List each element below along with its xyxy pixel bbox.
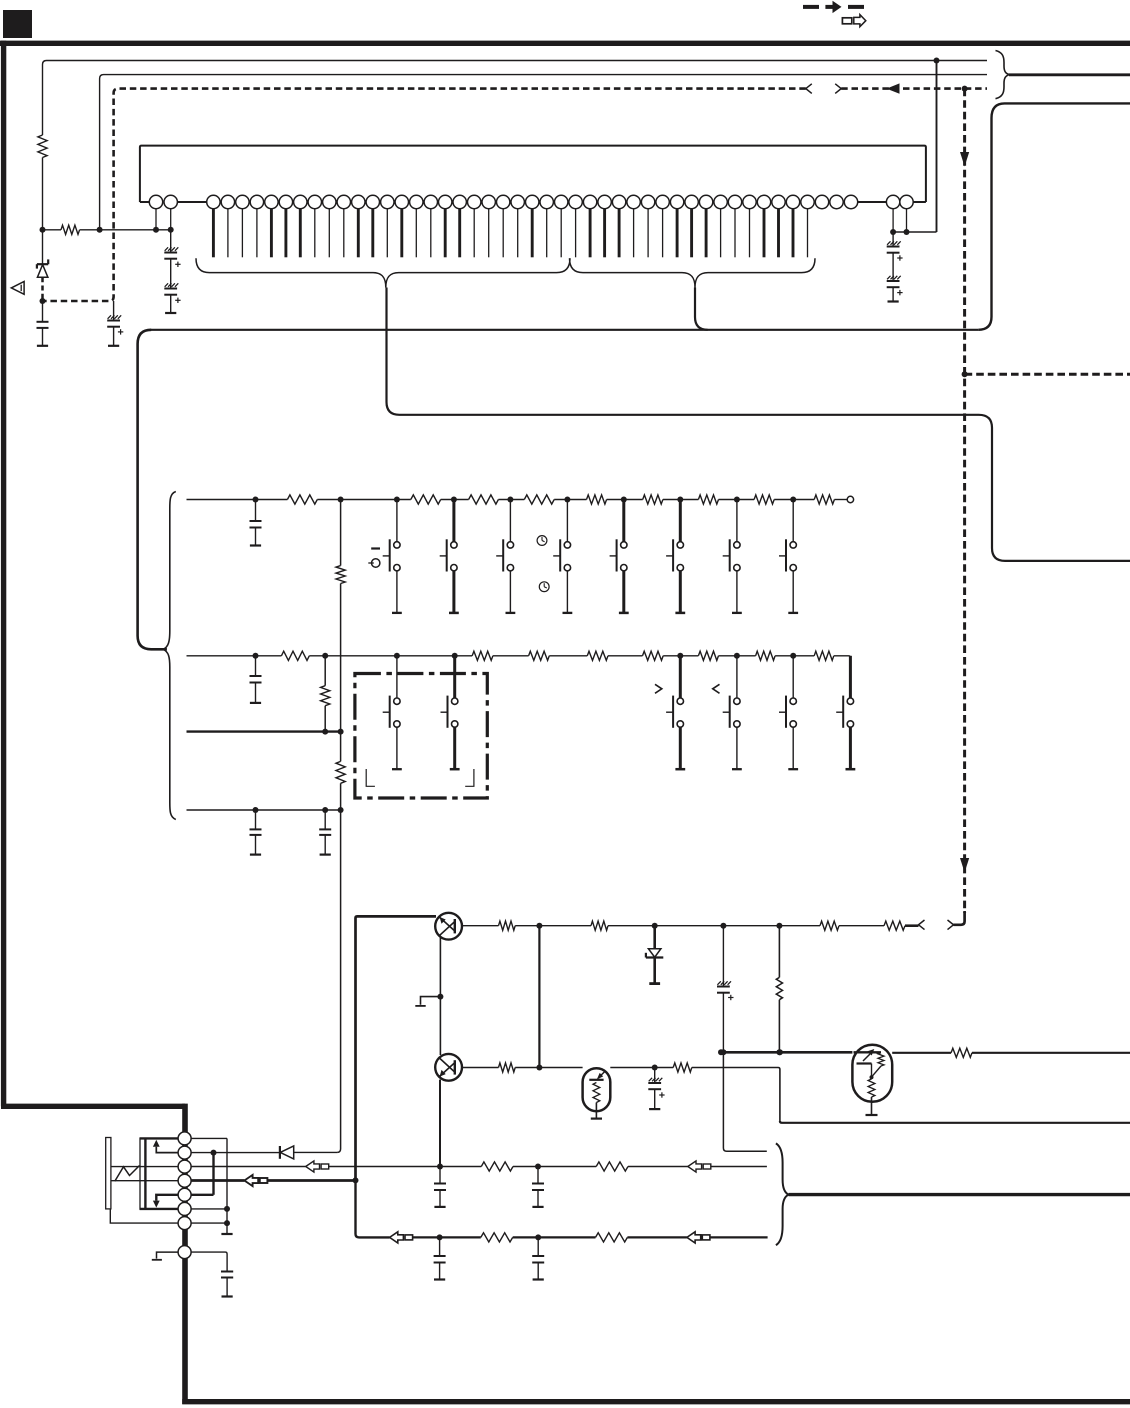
pin 8 wire to capacitor — [191, 1252, 227, 1271]
vertical ladder wire B with resistor — [324, 656, 326, 686]
key matrix row 1 wire — [187, 499, 288, 501]
resistor R-q1a — [499, 921, 516, 930]
electrolytic capacitor C1b — [165, 283, 168, 287]
zener diode D1 — [42, 230, 44, 264]
board corner mark left — [366, 769, 375, 786]
resistor R-b1b — [596, 1162, 628, 1171]
thick drive wire lower — [721, 1051, 852, 1054]
transistor Q2 — [435, 1054, 462, 1081]
wire between Q rows — [538, 926, 540, 1068]
electrolytic chain at mid column — [722, 926, 724, 987]
connector pin circles — [178, 1132, 191, 1145]
digital transistor Q4 oval — [852, 1045, 892, 1102]
legend dashed-arrow mark — [803, 5, 819, 9]
connector pin 1 wires — [140, 1137, 178, 1139]
IC pin 2 lead — [170, 209, 172, 230]
SW1 stop icon — [371, 547, 380, 549]
connector pin 7 wire — [191, 1222, 227, 1224]
thick page border bottom edge — [182, 1399, 1130, 1404]
IC pin 1 lead — [155, 209, 157, 230]
capacitor C-b1b — [537, 1167, 539, 1184]
IC right pad leads — [892, 209, 894, 232]
junction dot on dashed wire — [962, 86, 968, 92]
dash-dot remote board outline — [355, 674, 487, 799]
thick page border top edge — [0, 41, 1130, 46]
Q2 row wire — [462, 1067, 499, 1069]
IC pad circles right pair — [886, 195, 899, 208]
capacitor on row 4 right — [324, 810, 326, 829]
wire break chevrons at dashed bus bottom — [919, 920, 925, 930]
dashed bus corner at bottom — [954, 911, 965, 925]
thick drive wire right of Q4 — [892, 1052, 951, 1054]
pin 8 stub terminal — [157, 1252, 178, 1259]
dashed vertical bus wire — [963, 89, 966, 913]
wire break chevron left — [806, 84, 812, 94]
connector pin 4 wires — [112, 1180, 178, 1182]
Q2 emitter wire down to connector row — [439, 1080, 441, 1167]
wire from IC right pads — [893, 231, 936, 233]
wire top line B — [100, 75, 987, 230]
pushbutton switch SW14 — [849, 656, 852, 698]
capacitor C-b1a — [439, 1167, 441, 1184]
junction dot on line A — [934, 58, 940, 64]
pushbutton switch SW12 — [736, 656, 738, 698]
thick routed wire from key matrix brace — [138, 330, 167, 650]
capacitor C3 — [42, 301, 44, 322]
wire Q1 to Q2 — [439, 936, 441, 1055]
thick page border left edge — [1, 41, 6, 1107]
SW1 power icon — [372, 559, 380, 567]
signal arrow on pin 4 wire — [244, 1175, 258, 1186]
transistor Q1 — [435, 913, 462, 940]
thick page border jog at bottom left — [1, 1104, 185, 1109]
resistor column right — [778, 926, 780, 978]
resistor R-q4 — [951, 1048, 972, 1057]
down arrowhead on dashed bus upper — [960, 152, 969, 167]
wire break chevron right — [835, 84, 841, 94]
row 1 junction dots — [253, 497, 259, 503]
pushbutton switch SW7 — [736, 500, 738, 542]
rewind mark — [713, 684, 720, 693]
connector ground rail — [226, 1138, 228, 1233]
resistor R-b2b — [596, 1233, 628, 1242]
brace A under IC pins — [196, 258, 570, 287]
electrolytic capacitor below Q2 row — [654, 1068, 656, 1084]
pushbutton switch SW6 — [679, 500, 682, 542]
bottom row 2 wire from long vertical — [356, 1180, 390, 1237]
cable plug body — [106, 1138, 111, 1209]
electrolytic capacitor chain C2a — [892, 232, 894, 246]
electrolytic capacitor chain C1a — [170, 230, 172, 253]
pushbutton switch SW5 — [622, 500, 625, 542]
down arrowhead on dashed bus lower — [960, 858, 969, 873]
connector pin 2 stub with up arrow — [156, 1147, 178, 1153]
resistor on left vertical line A — [38, 135, 47, 158]
pushbutton switch SW1 — [396, 500, 398, 542]
junction dots on Q1 row — [536, 923, 542, 929]
resistor R-q1c — [820, 921, 839, 930]
pushbutton switch SW13 — [792, 656, 794, 698]
junction dot on dashed bus — [962, 371, 968, 377]
wire top line A corner and run — [43, 61, 988, 136]
legend open arrow with box mark — [842, 18, 851, 24]
clock icon upper — [537, 536, 547, 546]
routed wire from pin-group brace A to lower right — [387, 288, 1130, 561]
electrolytic capacitor C2b — [887, 276, 890, 280]
output brace bottom right — [776, 1143, 789, 1245]
signal arrow on bottom row 2 right — [687, 1232, 701, 1243]
junction dots on Q2 row — [536, 1065, 542, 1071]
signal arrow on bottom row 2 left — [390, 1232, 404, 1243]
dashed branch wire to right edge — [965, 373, 1130, 376]
key matrix row 3 wire — [187, 730, 341, 732]
capacitor C-b2a — [439, 1237, 441, 1255]
resistor R-b2a — [481, 1233, 513, 1242]
wire joining IC pads — [177, 201, 206, 203]
resistor R-q2b — [673, 1063, 692, 1072]
electrolytic capacitor C4 — [113, 301, 115, 320]
Q2 row wire to lower right corner — [692, 1068, 780, 1122]
arrowhead on dashed wire pointing left — [887, 83, 900, 93]
wire top line A from IC area to right — [42, 158, 44, 230]
IC pin leads — [212, 209, 215, 257]
stub terminal near Q1 — [421, 997, 441, 1005]
plug shield wire to pin 7 — [110, 1209, 178, 1223]
board corner mark right — [465, 769, 474, 786]
connector pin 2 wire to diode — [191, 1152, 213, 1154]
row 2 junction dots — [253, 653, 259, 659]
connector pin 6 wires — [140, 1208, 178, 1210]
capacitor C-pin8 — [221, 1271, 233, 1273]
dashed stem below D1 — [41, 277, 44, 301]
brace B under IC pins — [570, 258, 816, 287]
tall brace grouping key matrix rows — [163, 492, 176, 820]
connector pin 3 wires — [112, 1166, 178, 1168]
resistor R-q1d — [884, 921, 905, 930]
key matrix row 2 wire — [187, 655, 282, 657]
supply wire under IC pins 1-2 — [43, 229, 62, 231]
capacitor C-b2b — [537, 1237, 539, 1255]
thick page border lower left leg — [182, 1104, 188, 1404]
photo device Q3 oval — [583, 1068, 611, 1111]
key matrix row 4 wire — [187, 809, 341, 811]
connector pin 5 wire — [191, 1194, 213, 1196]
pushbutton switch SW11 — [679, 656, 682, 698]
IC pad circles left pair — [149, 195, 162, 208]
resistor R-q2a — [499, 1063, 516, 1072]
brace grouping three top lines — [996, 51, 1010, 99]
bottom row 1 dots and caps — [437, 1164, 443, 1170]
pushbutton switch SW8 — [792, 500, 794, 542]
key matrix row 2 resistors — [281, 651, 309, 660]
IC body outline — [140, 146, 926, 202]
capacitor on row 4 left — [255, 810, 257, 829]
wire mid column down to output brace — [723, 1052, 766, 1151]
collector row wire of Q1 — [462, 925, 499, 927]
cable flex mark — [115, 1166, 140, 1182]
pushbutton switch SW9 — [396, 656, 398, 698]
junction dots on supply wire — [40, 227, 46, 233]
signal arrow on pin 3 wire — [306, 1161, 320, 1172]
zener diode D2 — [653, 926, 656, 949]
thick wire to Q1 emitter and long vertical — [356, 916, 437, 1180]
thick output wire to right edge — [789, 1193, 1130, 1196]
routed wire from pin-group brace B to top right — [695, 288, 708, 330]
pushbutton switch SW3 — [509, 500, 511, 542]
connector box left edge — [139, 1138, 141, 1210]
output wire right of brace — [1009, 73, 1130, 76]
junction dot on Q1-Q2 wire — [437, 994, 443, 1000]
pushbutton switch SW2 — [452, 500, 455, 542]
resistor R-top on supply wire — [61, 225, 80, 234]
bottom row 1 wire with resistors — [481, 1162, 513, 1171]
caution triangle mark — [11, 282, 24, 295]
pushbutton switch SW10 — [453, 656, 456, 698]
dashed control wire right segment — [841, 87, 987, 90]
row 1 open terminal — [847, 496, 853, 502]
resistor R-q1b — [591, 921, 608, 930]
vertical ladder wire A with resistors — [340, 500, 342, 566]
signal arrow on bottom row 1 — [688, 1161, 702, 1172]
vertical sense wire right of IC — [936, 61, 938, 233]
diode D3 — [279, 1146, 281, 1159]
key matrix row 1 resistors — [287, 495, 317, 504]
dashed control wire top run — [43, 89, 806, 301]
capacitor on row 2 — [255, 656, 257, 676]
thick stub to wire break — [905, 924, 919, 927]
connector pin 5 stub with down arrow — [156, 1195, 178, 1201]
fast-forward mark — [655, 684, 662, 693]
clock icon lower — [539, 582, 549, 592]
pushbutton switch SW4 — [566, 500, 568, 542]
IC pad circle row — [207, 195, 220, 208]
page corner index square — [3, 10, 32, 38]
capacitor on row 1 — [255, 500, 257, 521]
